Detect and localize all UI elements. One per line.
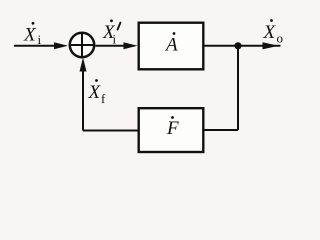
prime of Xi' <box>118 23 121 30</box>
svg-text:X: X <box>88 82 102 103</box>
wire: summing junction to block A <box>96 45 127 47</box>
plus sign vertical bar <box>81 34 83 56</box>
arrowhead: feedback into summing junction bottom <box>80 58 87 72</box>
dot above Xo <box>270 19 273 22</box>
arrowhead: input into summing junction <box>54 42 68 49</box>
dot above F <box>171 116 174 119</box>
dot above Xi <box>32 22 35 25</box>
wire: horizontal into block F right side <box>205 129 239 131</box>
dot above A <box>173 32 176 35</box>
block F rectangle <box>139 108 204 152</box>
wire: vertical from junction down <box>237 46 239 130</box>
summing junction circle <box>70 33 94 57</box>
plus sign horizontal bar <box>71 44 93 46</box>
svg-text:f: f <box>101 91 106 106</box>
block A rectangle <box>139 23 204 70</box>
wire: block F left side to feedback corner <box>83 130 138 132</box>
svg-text:i: i <box>38 32 42 47</box>
node: output junction dot <box>234 42 241 49</box>
wire: block A to output <box>205 45 281 47</box>
wire: input line into summing junction <box>14 45 56 47</box>
svg-text:F: F <box>166 118 179 139</box>
dot above Xf <box>95 79 98 82</box>
dot above Xi' <box>110 19 113 22</box>
svg-text:o: o <box>277 31 284 46</box>
svg-text:X: X <box>23 25 37 46</box>
svg-text:A: A <box>164 35 178 56</box>
arrowhead: output <box>263 42 279 49</box>
arrowhead: into block A <box>124 42 138 49</box>
wire: feedback vertical up to summing junction <box>82 69 84 131</box>
svg-text:i: i <box>113 32 117 47</box>
svg-text:X: X <box>263 22 277 43</box>
